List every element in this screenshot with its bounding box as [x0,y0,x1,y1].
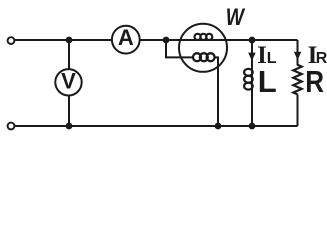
node junction bottom V [66,123,73,130]
ammeter A body [112,26,140,54]
wire inductor branch [251,40,253,126]
arrow current IL [248,53,255,61]
terminal bottom-left [8,123,15,130]
node junction top L [249,37,256,44]
terminal top-left [8,37,15,44]
resistor R [293,65,301,95]
wire voltmeter branch upper [68,40,70,69]
wattmeter current coil [195,34,201,40]
wire wattmeter voltage-coil return [214,57,218,126]
voltmeter V body [55,69,81,95]
svg-text:L: L [258,64,277,99]
wire right branch upper (R branch) [297,40,299,66]
node junction bottom W [215,123,222,130]
node junction top W [163,37,170,44]
wire top rail right segment [140,39,298,41]
wire voltmeter branch lower [68,96,70,127]
wire bottom rail [14,125,297,127]
svg-text:A: A [118,25,134,50]
node junction bottom L [249,123,256,130]
wattmeter U-W body [179,24,227,72]
wire right branch lower [297,94,299,126]
wire top rail left segment [14,39,112,41]
wire wattmeter voltage-coil feed [166,40,193,57]
svg-text:V: V [61,68,76,93]
node junction top V [66,37,73,44]
arrow current IR [294,52,301,60]
inductor L [244,69,253,76]
svg-text:W: W [226,3,246,31]
wattmeter voltage coil [193,53,201,61]
svg-text:R: R [305,65,324,100]
